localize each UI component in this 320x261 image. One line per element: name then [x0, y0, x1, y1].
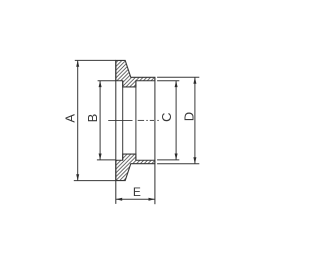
- extension line A bottom: [74, 180, 116, 182]
- svg-text:A: A: [62, 114, 77, 123]
- counterbore step edge: [122, 81, 124, 160]
- tube end face / E right extension line: [154, 77, 156, 204]
- bore ridge edge: [135, 81, 137, 160]
- extension line C bottom: [157, 159, 179, 161]
- dimension line A: [77, 60, 79, 180]
- flange body upper cross-section (hatched): [116, 60, 155, 87]
- flange body lower cross-section (hatched, mirror): [116, 154, 155, 181]
- dimension line C: [175, 81, 177, 160]
- svg-text:E: E: [133, 185, 141, 199]
- svg-text:C: C: [159, 113, 174, 122]
- extension line B bottom: [97, 159, 116, 161]
- extension line D top: [157, 76, 199, 78]
- dimension line B: [99, 81, 101, 160]
- centerline: [108, 119, 159, 121]
- dimension line E: [116, 198, 155, 200]
- extension line D bottom: [157, 163, 199, 165]
- svg-text:D: D: [181, 112, 196, 121]
- dimension line D: [194, 77, 196, 163]
- extension line C top: [157, 80, 179, 82]
- extension line B top: [98, 80, 116, 82]
- extension line A top: [75, 59, 116, 61]
- flange face / E left extension line: [115, 60, 117, 204]
- svg-text:B: B: [85, 114, 100, 123]
